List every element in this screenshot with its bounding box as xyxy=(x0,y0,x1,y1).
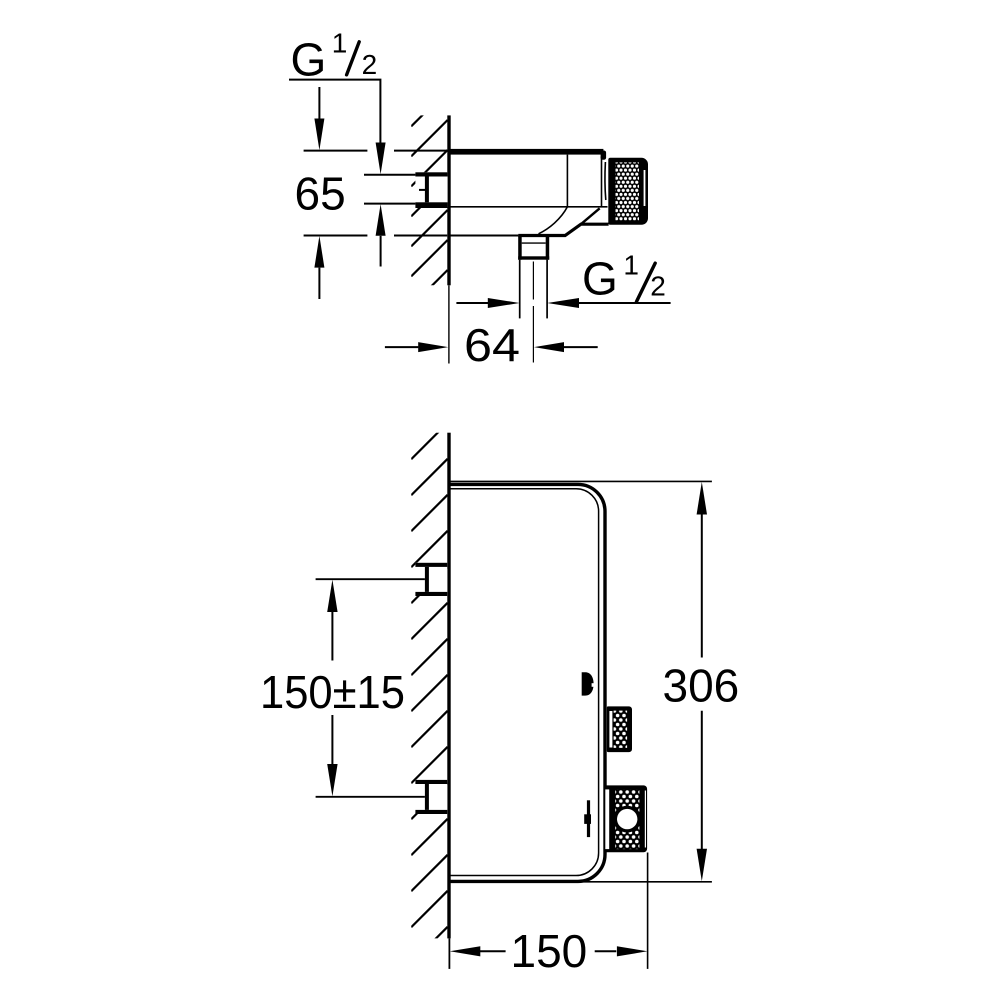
body thick lower-right outline (top view) xyxy=(518,224,608,235)
body outline (top view) xyxy=(449,155,608,234)
pipe centerline xyxy=(532,262,534,363)
button mark (front view) xyxy=(582,672,594,695)
lower wall fitting (front view) xyxy=(415,780,447,814)
wall line (top view) xyxy=(447,115,450,285)
inlet fitting (top view) xyxy=(415,172,447,208)
label G 1/2 (top) xyxy=(291,28,378,86)
svg-text:G: G xyxy=(291,33,327,85)
dimension G1/2 outlet pipe xyxy=(456,298,670,308)
extension line top of inlet fitting xyxy=(364,174,417,176)
dimension 150±15 xyxy=(327,580,337,797)
top bar right step xyxy=(601,151,607,160)
wall line (front view) xyxy=(447,433,450,939)
svg-text:64: 64 xyxy=(464,319,520,371)
svg-text:1: 1 xyxy=(332,28,348,59)
body inner line (front view) xyxy=(450,489,599,876)
svg-text:150±15: 150±15 xyxy=(260,666,405,718)
extension line top of body (top view) xyxy=(304,150,448,152)
thermostat body top bar (top view) xyxy=(449,149,603,155)
svg-text:2: 2 xyxy=(362,49,378,80)
svg-text:2: 2 xyxy=(650,270,666,301)
extension line 306 bottom xyxy=(584,881,712,883)
svg-text:150: 150 xyxy=(511,925,588,977)
extension line bottom of body (top view) xyxy=(304,235,448,237)
knurled knob (top view) xyxy=(608,158,648,225)
upper wall fitting (front view) xyxy=(415,563,447,596)
extension line 150 right xyxy=(647,853,649,969)
thermostat body outline (front view) xyxy=(450,484,606,881)
centerline lower fitting xyxy=(316,796,425,798)
wall extension line below (top view) xyxy=(448,285,450,363)
wall hatching (top view) xyxy=(411,90,447,306)
extension line 150 left xyxy=(448,938,450,969)
centerline upper fitting xyxy=(316,578,425,580)
dimension arrow G1/2 to fitting top xyxy=(376,143,386,175)
svg-text:65: 65 xyxy=(295,167,346,219)
large knurled knob (front view) xyxy=(604,785,647,852)
svg-text:306: 306 xyxy=(663,660,740,712)
dimension 150 xyxy=(450,946,648,956)
dimension arrow 65 lower xyxy=(314,236,324,299)
dimension arrow 65 upper xyxy=(314,87,324,150)
svg-text:G: G xyxy=(582,253,618,305)
small knurled button (front view) xyxy=(607,706,632,752)
body bottom line at wall (top view) xyxy=(449,235,518,237)
leader line G1/2 top label xyxy=(289,80,380,143)
outlet fitting (top view) xyxy=(518,235,549,260)
temperature mark (front view) xyxy=(587,800,590,837)
dimension arrow fitting bottom xyxy=(376,204,386,266)
dimension 306 xyxy=(697,482,707,881)
wall hatching (front view) xyxy=(411,423,447,963)
label G 1/2 (outlet) xyxy=(582,249,666,304)
extension line bottom of inlet fitting xyxy=(364,203,417,205)
outlet pipe (top view) xyxy=(520,260,547,319)
dimension 64 xyxy=(385,342,598,352)
extension line 306 top xyxy=(449,480,712,482)
svg-text:1: 1 xyxy=(623,249,639,280)
